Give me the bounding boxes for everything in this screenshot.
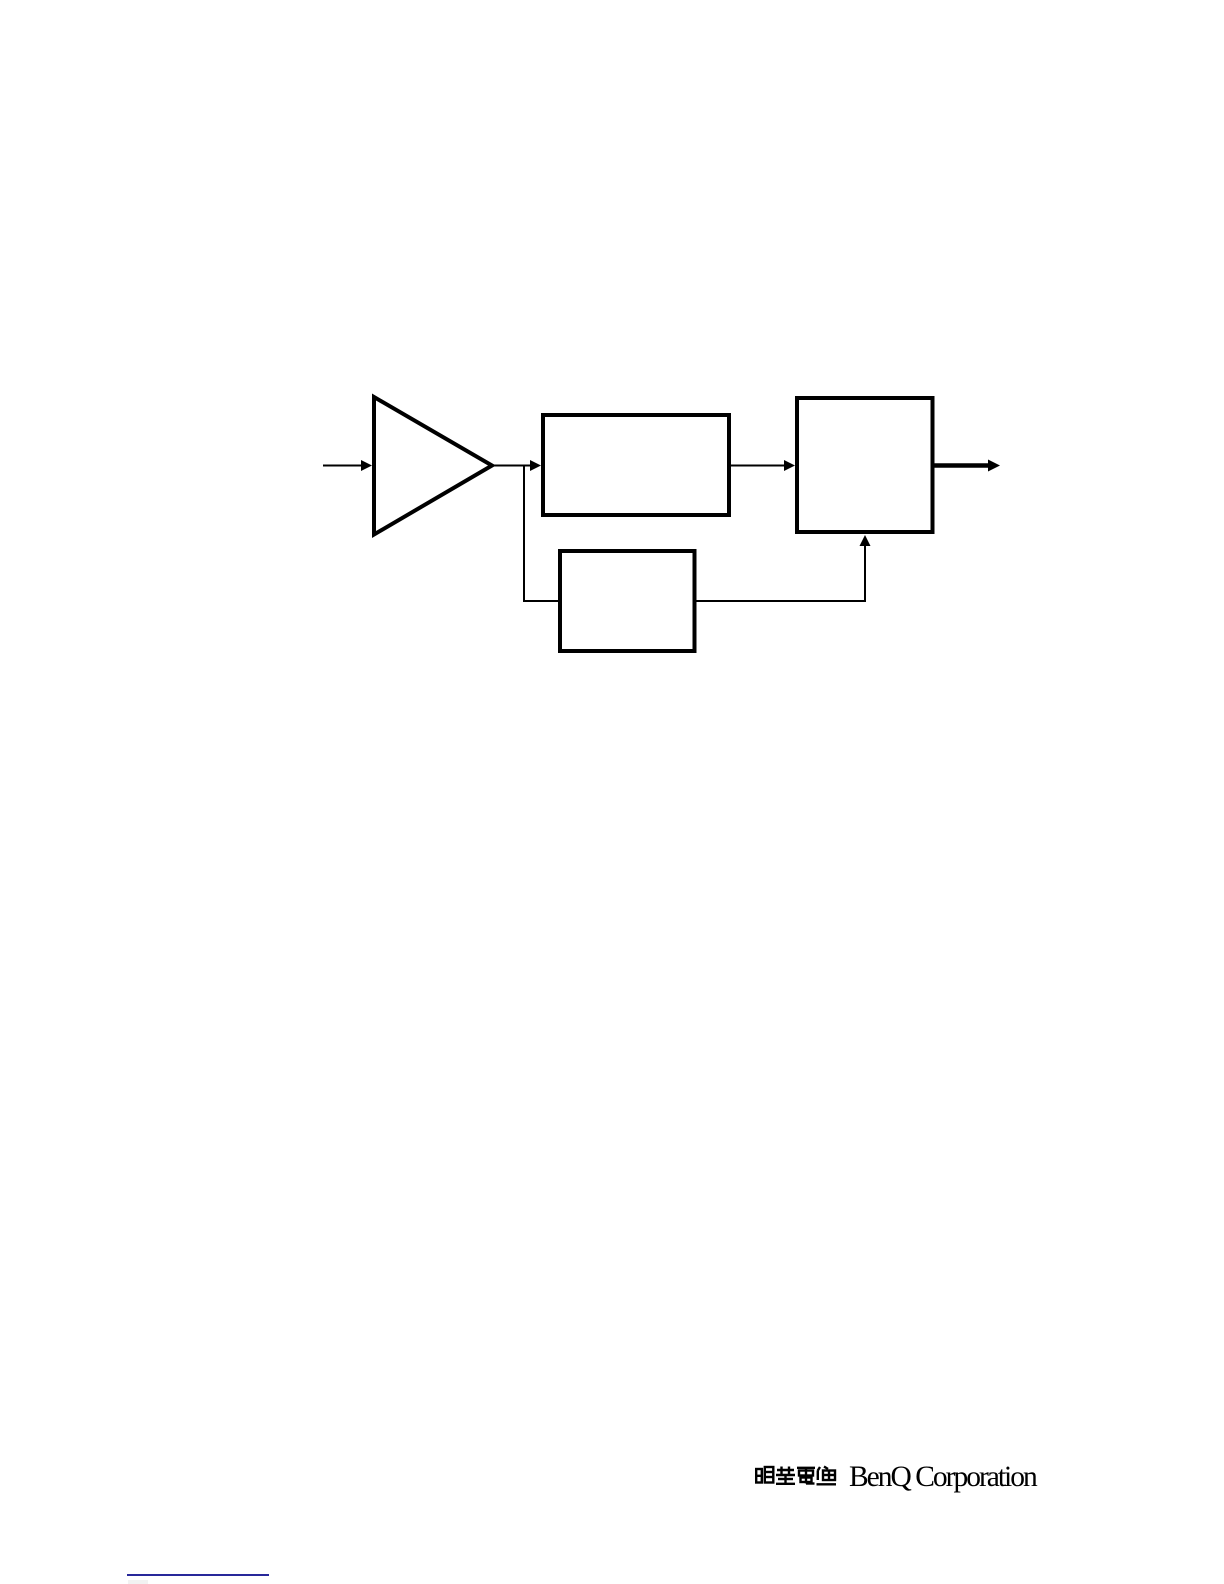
svg-text:BenQ Corporation: BenQ Corporation <box>849 1461 1038 1493</box>
